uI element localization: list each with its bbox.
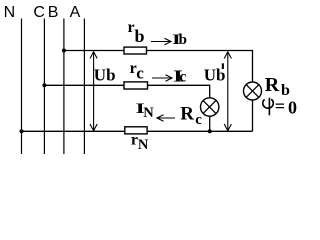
svg-text:b: b [135, 26, 145, 46]
svg-text:R: R [265, 74, 280, 96]
svg-text:A: A [70, 4, 81, 21]
svg-text:B: B [48, 4, 59, 21]
svg-text:C: C [33, 4, 45, 21]
svg-text:c: c [136, 63, 144, 82]
svg-text:N: N [138, 137, 149, 153]
svg-text:b: b [179, 32, 187, 48]
svg-text:Ub: Ub [94, 66, 116, 85]
svg-text:=: = [275, 96, 285, 116]
svg-text:c: c [195, 112, 202, 128]
svg-text:R: R [180, 104, 194, 125]
svg-text:N: N [143, 105, 154, 121]
svg-text:0: 0 [288, 98, 297, 118]
svg-text:c: c [179, 69, 186, 86]
svg-text:N: N [4, 4, 16, 21]
